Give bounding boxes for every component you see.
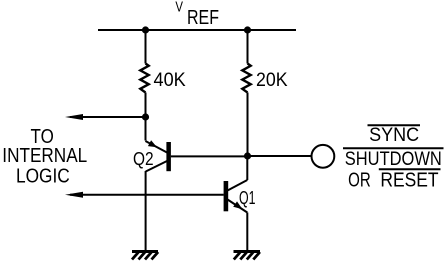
transistor Q2 [133, 140, 169, 171]
svg-text:SHUTDOWN: SHUTDOWN [345, 149, 442, 170]
svg-text:Q1: Q1 [239, 187, 256, 208]
svg-text:RESET: RESET [380, 169, 438, 191]
svg-text:40K: 40K [154, 70, 187, 91]
terminal pin circle [312, 145, 335, 168]
wire node B to terminal [248, 155, 312, 157]
wire rail to R2 [247, 30, 249, 64]
svg-text:INTERNAL: INTERNAL [2, 145, 87, 167]
net VREF label [175, 0, 219, 29]
wire arrow1 to internal logic [70, 116, 146, 118]
wire VREF rail [98, 29, 296, 31]
svg-text:V: V [175, 0, 183, 15]
label OR RESET with overline on RESET [348, 169, 440, 191]
label TO INTERNAL LOGIC [2, 126, 87, 187]
resistor R2 20K [242, 64, 250, 93]
wire Q1 collector to node B [246, 156, 248, 180]
label SYNC with overline [368, 125, 421, 146]
svg-text:20K: 20K [256, 70, 288, 91]
ground left [132, 252, 158, 260]
svg-text:Q2: Q2 [133, 148, 154, 169]
node junction rail-right [244, 26, 251, 33]
label SHUTDOWN with overline [343, 148, 444, 170]
wire Q2 collector to ground [145, 171, 147, 251]
ground right [234, 252, 261, 260]
wire rail to R1 [145, 30, 147, 64]
wire Q1 emitter to ground [246, 213, 248, 251]
transistor Q1 [226, 180, 256, 213]
svg-text:SYNC: SYNC [369, 125, 419, 146]
node junction rail-left [142, 26, 149, 33]
wire R1 to node A [145, 93, 147, 118]
wire arrow2 to internal logic / Q1 base [70, 194, 224, 196]
svg-text:OR: OR [348, 169, 371, 191]
node A junction [142, 113, 149, 120]
wire Q2 base to node B [171, 155, 248, 157]
wire node A to Q2 emitter [145, 117, 147, 141]
svg-text:REF: REF [187, 7, 219, 29]
wire R2 to node B [247, 93, 249, 157]
svg-text:LOGIC: LOGIC [16, 165, 70, 187]
resistor R1 40K [140, 64, 148, 93]
node B junction [244, 152, 251, 159]
